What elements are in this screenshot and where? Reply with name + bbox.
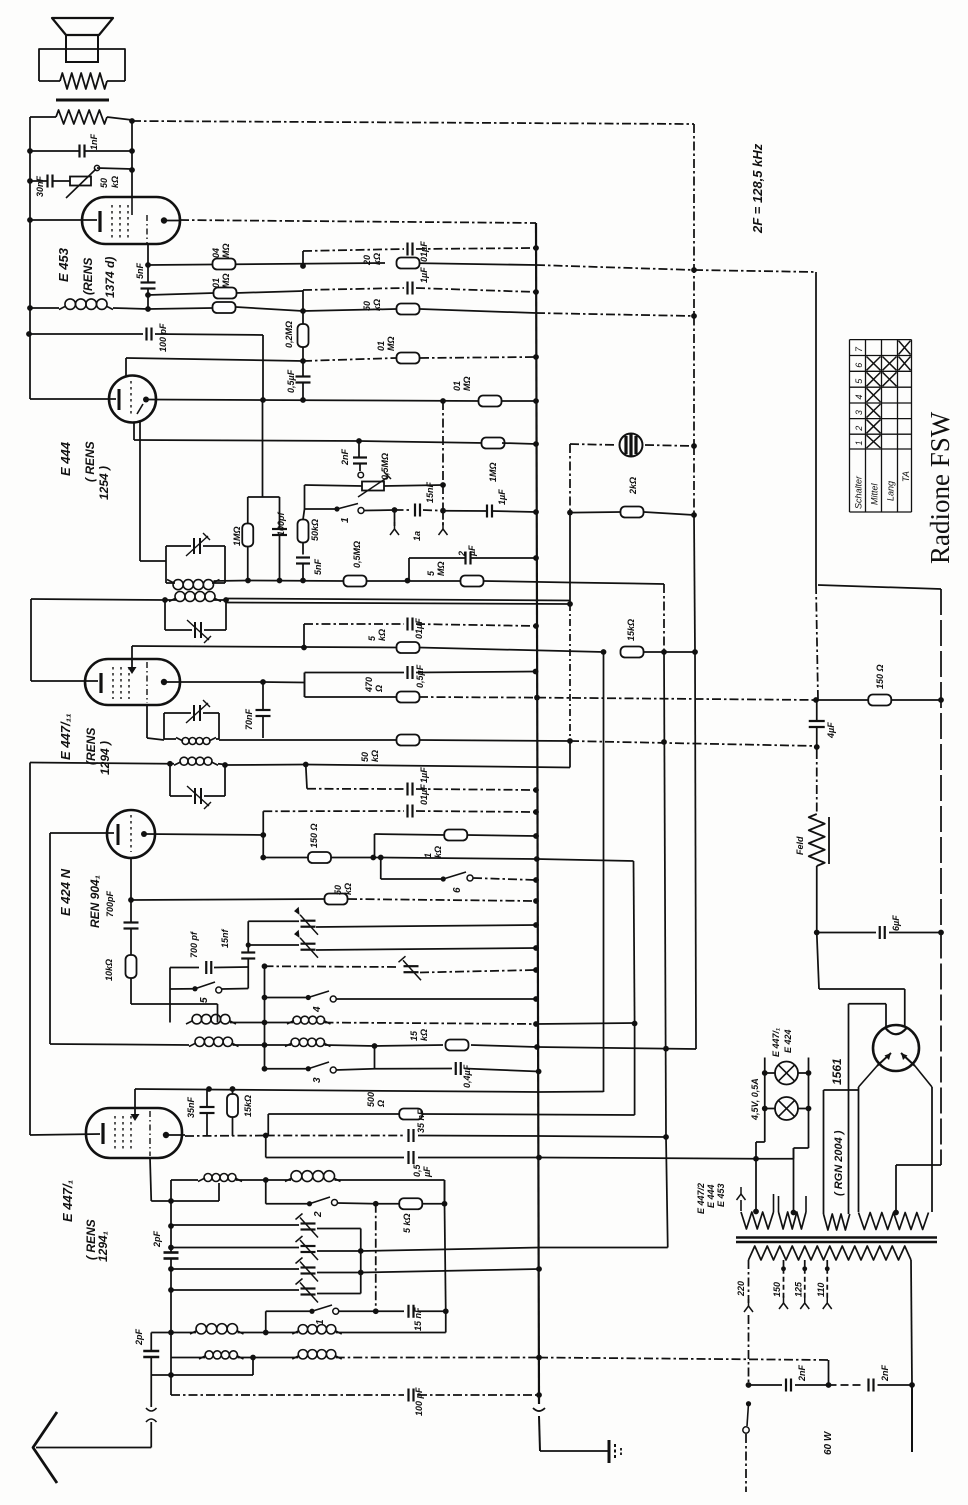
svg-text:MΩ: MΩ [221,243,231,258]
wire [303,509,305,520]
node [358,1248,364,1254]
tube V1 anode dot [161,217,167,223]
svg-text:04: 04 [211,248,221,258]
svg-text:kΩ: kΩ [110,176,120,188]
wire [302,361,304,377]
wire row AVC [148,308,212,309]
pilot lamp 2 [775,1097,798,1120]
svg-text:E 444: E 444 [58,441,73,476]
tube V4 cathode [117,824,120,845]
tube V1 cathode [98,211,101,232]
svg-text:kΩ: kΩ [377,629,387,641]
wire primary right [911,1260,912,1385]
node [536,1069,542,1075]
node [567,738,573,744]
IF can 2 box [164,600,166,630]
capacitor 100pF [145,328,147,341]
node [533,996,539,1002]
tube V3 anode dot [161,679,167,685]
wire AVC long [537,1047,696,1049]
resistor 50k osc [325,894,348,905]
wire primary left [748,1260,750,1303]
wire [304,673,306,698]
svg-text:E 453: E 453 [56,247,71,282]
node [145,262,151,268]
fork 220 [748,1299,750,1306]
wire corner [265,1136,267,1158]
node [536,1355,542,1361]
wire corner 0.1uF [262,811,264,835]
switch 2 arm [307,1201,312,1206]
svg-text:5nF: 5nF [135,262,145,279]
oscillator trimmer row [170,967,199,969]
capacitor 2nF [353,456,367,458]
wire [279,497,281,529]
wire row 50k osc [131,899,325,900]
svg-text:E 453: E 453 [716,1183,726,1207]
tube V2 E444 envelope [109,376,156,423]
svg-text:50: 50 [333,885,343,895]
loudspeaker coil body [66,35,98,62]
band coil 2a [196,1324,206,1334]
antenna coil 3a [205,1351,213,1359]
node [300,358,306,364]
tube V5 grid lead dash [149,1111,151,1156]
svg-text:15nF: 15nF [425,481,435,503]
node [536,1392,542,1398]
rectifier filament notch [885,1028,907,1035]
antenna plug break [146,1408,157,1411]
wire [816,866,818,933]
svg-text:1: 1 [340,517,351,523]
wire [264,966,266,1069]
tube V5 cathode [101,1123,104,1144]
wire [247,921,249,945]
capacitor 2pF ant [143,1350,159,1353]
resistor 1k [444,830,467,841]
wire tube V4 left [50,832,114,834]
svg-text:kΩ: kΩ [372,299,382,311]
primary taps [781,1266,786,1271]
wire corner up [695,652,696,1049]
wire corner down [262,335,264,401]
svg-text:100pf: 100pf [276,511,286,536]
tube V5 anode dot [163,1132,169,1138]
svg-text:Ω: Ω [376,1100,386,1108]
IF can 2 trimmer [194,622,196,638]
tube V1 grid lead dash [146,215,148,244]
svg-text:20: 20 [362,255,372,266]
svg-text:( RGN 2004 ): ( RGN 2004 ) [833,1130,845,1196]
tube V4 grid dashes [130,815,132,852]
svg-text:15: 15 [409,1030,419,1041]
svg-text:E 447/₁: E 447/₁ [60,1180,75,1222]
wire [364,509,395,512]
svg-text:2kΩ: 2kΩ [628,477,638,495]
capacitor 15nF band [407,1305,409,1318]
svg-text:100 pF: 100 pF [414,1387,424,1416]
tube V4 anode dot [141,831,147,837]
IF can 2 coil [175,592,185,602]
node [26,331,32,337]
wire [267,1114,269,1136]
wire corner 1uF [306,765,307,789]
wire row lower osc [50,1044,189,1045]
capacitor 15nF [414,504,416,517]
node [260,855,266,861]
IF can 1 coil [173,580,183,590]
resistor 15k osc [446,1040,469,1051]
resistor 1M row [482,438,505,449]
node [262,963,268,969]
switch 6 arm [441,876,446,881]
node [303,762,309,768]
wire tube V4 bottom [130,858,132,900]
wire [170,1333,172,1396]
svg-text:µF: µF [422,1166,432,1178]
resistor 0.4M [213,259,236,270]
svg-text:700pF: 700pF [105,890,115,917]
svg-text:5nF: 5nF [313,558,323,575]
wire [170,1248,172,1253]
wire [30,180,48,182]
tube V2 diode arrow [137,404,143,414]
wire [30,150,80,152]
svg-text:01: 01 [211,278,221,288]
node [536,1266,542,1272]
transformer primary winding [749,1246,912,1260]
svg-text:35nF: 35nF [186,1096,196,1118]
svg-text:kΩ: kΩ [370,750,380,762]
wire bus drop to tube grid [131,121,133,197]
wire [147,244,149,283]
svg-text:1MΩ: 1MΩ [488,462,498,482]
wire grid lead E444 [125,358,127,377]
svg-text:kΩ: kΩ [433,846,443,858]
resistor 0.2M vertical [298,324,309,347]
svg-text:1561: 1561 [830,1058,844,1085]
svg-text:2nF: 2nF [797,1364,807,1382]
capacitor 2nF a [785,1379,787,1392]
wire corner left [29,763,31,1136]
IF can 4 box [169,764,171,796]
IF can 3 box [163,713,165,739]
wire mains switch lead [748,1315,750,1385]
wire [31,599,165,600]
oscillator coil lower b [291,1038,299,1046]
capacitor 30nF [46,175,48,188]
node [27,148,33,154]
wire vertical 570 lower [569,513,571,604]
svg-text:100 pF: 100 pF [158,323,168,352]
svg-text:E 447/₁: E 447/₁ [771,1028,781,1057]
transformer secondary winding 1 [741,1212,774,1229]
svg-text:70nF: 70nF [244,708,254,730]
svg-text:01: 01 [452,381,462,391]
node [300,263,306,269]
wire left rail [29,117,31,220]
IF can 3 trimmer [193,705,195,721]
svg-text:6: 6 [854,363,864,368]
wire row 0.1M lower [126,358,303,361]
wire [302,311,304,324]
resistor 5M [461,576,484,587]
wire row out c [361,1269,539,1273]
node [753,1209,759,1215]
resistor 1M vertical [242,524,253,547]
svg-text:5: 5 [199,997,210,1003]
node [533,967,539,973]
switch table grid [850,339,912,341]
switch contact [358,472,364,478]
wire padder bus vert [375,1204,377,1312]
wire [236,1179,291,1181]
svg-text:µF: µF [467,545,477,557]
switch table crosses Lang [883,357,897,371]
svg-text:1a: 1a [412,531,422,541]
svg-text:kΩ: kΩ [372,253,382,265]
wire lamp left leg [764,1058,766,1074]
svg-text:1nF: 1nF [89,133,99,150]
node [260,679,266,685]
svg-text:2pF: 2pF [152,1230,162,1248]
svg-text:220: 220 [736,1281,746,1297]
resistor 150 [308,852,331,863]
wire corner [303,624,305,648]
svg-text:E 447/₁₁: E 447/₁₁ [58,713,73,760]
wire row 1uF [303,288,404,290]
wire [30,116,56,118]
svg-text:1µF: 1µF [419,267,429,283]
resistor 10k vertical [126,955,137,978]
node [533,555,539,561]
svg-text:50kΩ: 50kΩ [310,519,320,541]
svg-text:500: 500 [366,1092,376,1107]
wire [130,900,132,923]
svg-text:470: 470 [364,677,374,693]
wire row 0.1M left [148,293,214,295]
IF can 4 trimmer [194,788,196,804]
band padder capacitor 3 [171,1268,299,1270]
capacitor 2nF b [867,1379,869,1392]
capacitor 1uF b [406,783,408,796]
wire [302,564,304,581]
svg-text:1µF: 1µF [419,767,429,783]
switch table crosses Mittel [867,357,881,371]
capacitor 5nF volume [296,556,310,558]
node [533,833,539,839]
node [533,809,539,815]
capacitor 0.5uF heat [407,1151,409,1164]
potentiometer 50k [70,177,91,186]
wire lamp right leg [808,1058,810,1109]
tube V3 E447II envelope [85,659,180,705]
band padder capacitor 4 [171,1289,299,1291]
band coil 2b [298,1325,307,1334]
tube V5 E447I envelope [86,1108,182,1158]
node [533,669,539,675]
fork [442,522,444,529]
capacitor 2pF [164,1251,179,1254]
node [27,305,33,311]
wire grid resistor row [262,401,264,495]
svg-text:1: 1 [854,440,864,445]
resistor 2k [621,507,644,518]
antenna grid drop [150,1158,151,1201]
wire [130,944,132,956]
svg-text:Radione FSW: Radione FSW [925,411,955,564]
wire [262,835,264,858]
wire [252,1358,254,1376]
transformer core [736,1236,937,1238]
loudspeaker frame box [39,49,125,81]
node [263,1133,269,1139]
node [356,438,362,444]
wire [443,510,487,512]
resistor 5k band [399,1198,422,1209]
svg-text:Ω: Ω [374,685,384,693]
padder capacitor ball [620,434,643,457]
wire [817,933,819,990]
node [27,178,33,184]
svg-text:15nf: 15nf [220,928,230,948]
svg-text:(RENS: (RENS [81,258,95,295]
svg-text:50: 50 [360,752,370,762]
wire [409,557,466,559]
svg-text:Lang: Lang [886,481,896,501]
mains switch [746,1401,751,1406]
resistor 0.1M AVC [213,302,236,313]
svg-text:15kΩ: 15kΩ [626,619,636,641]
node [245,578,251,584]
wire row 20k right [536,265,694,270]
capacitor 100pF vertical [272,528,287,530]
wire row mains caps [749,1384,783,1386]
switch 4 arm [306,995,311,1000]
node [250,1355,256,1361]
node [533,945,539,951]
wire [816,700,818,721]
tube V1 grid top entry [131,197,133,215]
wire [339,1310,376,1312]
resistor 50k [397,304,420,315]
wire row AVC 5k [132,646,397,648]
svg-text:Feld: Feld [795,836,805,855]
tube V1 E453 envelope [82,197,180,244]
svg-text:1374 d): 1374 d) [103,257,117,298]
svg-text:4: 4 [312,1006,323,1013]
tube V3 grid lead dash [146,662,148,703]
wire row 50k B+ [219,739,263,741]
coil HF choke [65,299,76,310]
resistor 0.1M lower [397,353,420,364]
capacitor 700pF osc [205,961,207,974]
tube V5 anode lead [166,1134,185,1136]
transformer secondary winding 3 [824,1214,850,1230]
ground symbol [608,1440,611,1463]
wire [336,1357,539,1359]
wire [384,485,443,486]
resistor 5k [397,642,420,653]
node [533,877,539,883]
resistor 0.1M [214,288,237,299]
wire row 470 [305,696,398,698]
resistor output zigzag [56,110,107,124]
svg-text:REN 904₁: REN 904₁ [88,875,102,928]
wire earth row 35nF [185,1135,266,1138]
oscillator coil upper a [192,1014,202,1024]
capacitor 0.1uF [406,243,408,256]
svg-text:2nF: 2nF [880,1364,890,1382]
wire corner 667 [666,1137,668,1248]
svg-text:0,5µF: 0,5µF [415,664,425,688]
svg-text:Schalter: Schalter [854,475,864,509]
wire to mains [539,1358,829,1361]
antenna symbol [33,1412,57,1483]
wire row 100pF [29,333,143,335]
node [746,1382,752,1388]
switch 5 row [170,988,195,990]
svg-text:150: 150 [772,1282,782,1297]
node [168,1198,174,1204]
svg-text:01µF: 01µF [419,241,429,262]
capacitor 0.4uF [455,1062,457,1075]
svg-text:4,5V, 0,5A: 4,5V, 0,5A [750,1078,760,1121]
node [373,1308,379,1314]
wire row 500 [268,1113,399,1115]
svg-text:50: 50 [99,178,109,188]
svg-text:MΩ: MΩ [462,376,472,391]
svg-text:700 pf: 700 pf [189,931,199,958]
oscillator coil lower a [195,1037,204,1046]
node [301,645,307,651]
pilot lamp 1 [775,1062,798,1085]
tube V1 grid dashes [111,205,113,238]
wire [335,1179,445,1181]
wire [247,497,249,524]
node [370,855,376,861]
node [440,482,446,488]
tuning capacitor A [248,920,299,922]
capacitor 35nF row [407,1129,409,1142]
svg-text:2nF: 2nF [340,448,350,466]
node [533,245,539,251]
wire [214,966,248,969]
capacitor 0.5uF vertical [296,375,311,377]
wire [325,1045,375,1046]
svg-text:1254 ): 1254 ) [97,466,111,500]
wire corner up [374,834,376,858]
svg-text:4µF: 4µF [826,722,836,739]
wire [539,1416,540,1451]
wire earth long row [171,1394,404,1396]
svg-text:E 444: E 444 [706,1184,716,1208]
antenna coil 3b [298,1350,307,1359]
node [533,509,539,515]
svg-text:E 424 N: E 424 N [58,868,73,916]
band padder capacitor 1 [171,1224,299,1226]
switch table crosses TA [899,341,911,355]
rectifier RGN2004 envelope [873,1025,919,1071]
svg-text:2pF: 2pF [134,1328,144,1346]
band coil 1b [291,1171,302,1182]
svg-text:TA: TA [901,471,911,482]
wire top-cap grid E447II [131,646,133,667]
wire [358,441,360,458]
svg-text:0,4µF: 0,4µF [462,1064,472,1088]
node [263,1177,269,1183]
IF can 1 trimmer [193,538,195,554]
